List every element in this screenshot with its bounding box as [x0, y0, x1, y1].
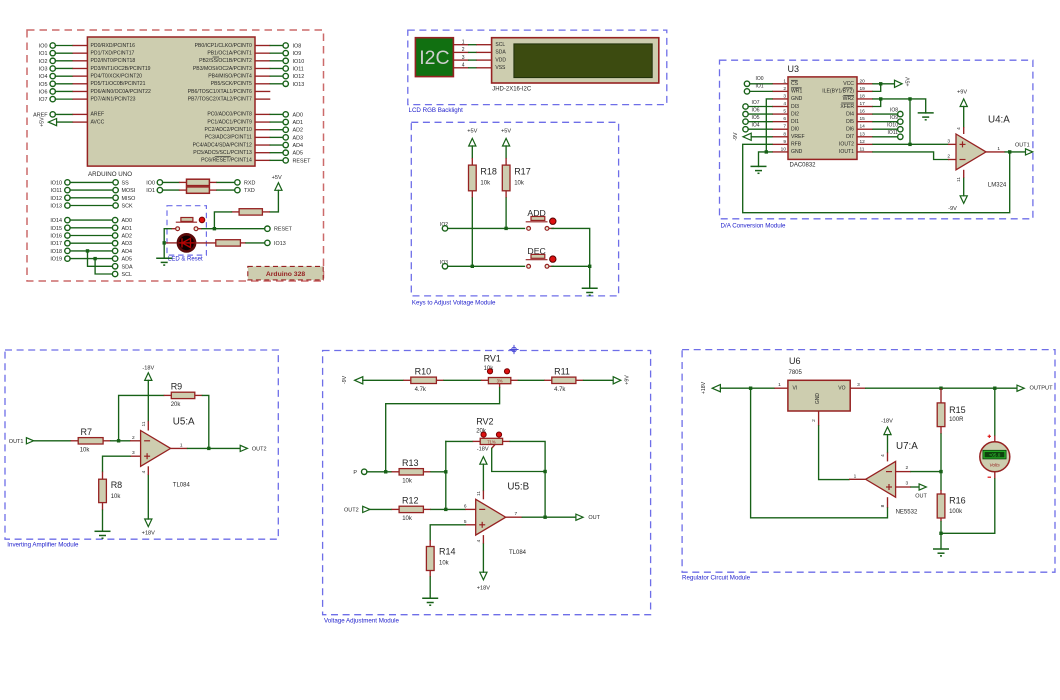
svg-text:5: 5 — [464, 519, 467, 525]
svg-text:U3: U3 — [788, 64, 800, 74]
RV1 wiper wire down-left to P net — [499, 384, 501, 388]
svg-text:14: 14 — [860, 124, 866, 130]
svg-text:PB3/MOSI/OC2A/PCINT3: PB3/MOSI/OC2A/PCINT3 — [193, 66, 252, 72]
svg-text:1: 1 — [783, 78, 786, 84]
resistor R14 10k — [429, 540, 431, 547]
svg-text:OUT2: OUT2 — [344, 507, 359, 513]
ground U3 — [751, 166, 767, 173]
wire R13 to node — [431, 471, 446, 473]
Arduino 328 label box — [248, 266, 323, 280]
svg-text:PC0/ADC0/PCINT8: PC0/ADC0/PCINT8 — [207, 112, 252, 118]
svg-text:CS: CS — [791, 81, 799, 87]
svg-text:10k: 10k — [402, 516, 413, 522]
svg-text:AD0: AD0 — [293, 112, 304, 118]
svg-text:IO19: IO19 — [50, 257, 62, 263]
U3 pin 1 CS — [772, 83, 788, 85]
wire R11 to +9V — [584, 379, 614, 381]
svg-text:U5:B: U5:B — [507, 482, 529, 493]
svg-text:DAC0832: DAC0832 — [790, 163, 817, 169]
svg-text:AD4: AD4 — [293, 143, 304, 149]
terminal OUTPUT — [1017, 385, 1024, 391]
power +9V right — [613, 377, 621, 384]
U3 pin 5 DI2 — [772, 113, 788, 115]
power +5V VCC — [873, 83, 895, 85]
ground — [95, 531, 111, 538]
svg-text:ARDUINO UNO: ARDUINO UNO — [88, 171, 132, 178]
resistor R9 20k — [164, 394, 172, 396]
svg-text:VREF: VREF — [791, 134, 805, 140]
U3 pin 9 RFB — [772, 143, 788, 145]
svg-text:OUT: OUT — [588, 515, 600, 521]
svg-text:+5V: +5V — [272, 175, 282, 181]
svg-text:10: 10 — [781, 146, 787, 152]
svg-text:PC4/ADC4/SDA/PCINT12: PC4/ADC4/SDA/PCINT12 — [193, 142, 252, 148]
wire OUT2 to R12 — [370, 508, 392, 510]
MCU U1 ATmega328 body — [87, 37, 255, 166]
svg-text:IO18: IO18 — [50, 249, 62, 255]
svg-text:4: 4 — [141, 470, 147, 473]
svg-text:GND: GND — [791, 96, 803, 102]
svg-text:NE5532: NE5532 — [896, 510, 918, 516]
wire XFER net down to IOUT2 row — [909, 99, 911, 144]
svg-text:4: 4 — [783, 101, 786, 107]
svg-text:IO5: IO5 — [39, 82, 48, 88]
svg-text:IO0: IO0 — [756, 76, 764, 82]
U3 pin 10 GND — [772, 151, 788, 153]
svg-text:IO7: IO7 — [752, 100, 760, 106]
U3 pin 2 WR1 — [772, 90, 788, 92]
svg-text:I2C: I2C — [419, 47, 449, 69]
svg-text:IO10: IO10 — [887, 123, 898, 129]
Inverting Amplifier module dashed border — [5, 350, 278, 539]
LCD module dashed border — [408, 30, 667, 105]
svg-text:IO17: IO17 — [50, 241, 62, 247]
svg-text:10k: 10k — [439, 561, 450, 567]
svg-text:PB4/MISO/PCINT4: PB4/MISO/PCINT4 — [208, 73, 252, 79]
svg-text:15: 15 — [860, 116, 866, 122]
svg-text:D/A Conversion Module: D/A Conversion Module — [721, 223, 787, 230]
svg-text:PC2/ADC2/PCINT10: PC2/ADC2/PCINT10 — [205, 127, 252, 133]
svg-text:PC6/RESET/PCINT14: PC6/RESET/PCINT14 — [201, 158, 252, 164]
svg-text:P: P — [353, 470, 357, 476]
push button RESET — [181, 218, 193, 222]
svg-text:7805: 7805 — [789, 370, 803, 376]
svg-text:100R: 100R — [949, 417, 964, 423]
LED & Reset sub-module dashed box — [167, 206, 206, 255]
svg-text:Inverting Amplifier Module: Inverting Amplifier Module — [7, 542, 79, 549]
U5:B output pin 7 to OUT — [506, 516, 523, 518]
svg-text:10k: 10k — [111, 494, 122, 500]
svg-text:MISO: MISO — [122, 196, 136, 202]
wire button left leg down — [171, 228, 176, 230]
U7 inverting input pin2 — [896, 471, 911, 473]
wire GND pin10 to ground — [759, 152, 773, 166]
svg-text:IO6: IO6 — [752, 107, 760, 113]
U3 pin 16 DI4 — [857, 113, 873, 115]
U3 pin 14 DI6 — [857, 128, 873, 130]
svg-text:SCK: SCK — [122, 204, 133, 210]
U6 GND pin 2 down — [818, 411, 820, 426]
U3 pin 7 DI0 — [772, 128, 788, 130]
svg-text:IO15: IO15 — [50, 226, 62, 232]
svg-text:SDA: SDA — [122, 264, 133, 270]
wire R8 to ground — [102, 510, 104, 531]
svg-text:DI6: DI6 — [846, 127, 854, 133]
ground — [582, 288, 598, 295]
svg-text:TL084: TL084 — [173, 483, 191, 489]
wire R14 to ground — [429, 577, 431, 598]
U3 pin 6 DI1 — [772, 121, 788, 123]
svg-text:+5V: +5V — [40, 117, 46, 127]
svg-text:10k: 10k — [80, 448, 91, 454]
svg-text:PD5/T1/OC0B/PCINT21: PD5/T1/OC0B/PCINT21 — [91, 81, 146, 87]
svg-text:AD1: AD1 — [293, 120, 304, 126]
svg-text:12: 12 — [860, 139, 866, 145]
svg-text:DI7: DI7 — [846, 134, 854, 140]
svg-text:PB1/OC1A/PCINT1: PB1/OC1A/PCINT1 — [207, 50, 252, 56]
svg-text:VDD: VDD — [495, 57, 506, 63]
Arduino module dashed border — [27, 30, 324, 281]
svg-text:AD3: AD3 — [293, 135, 304, 141]
svg-text:ILE(BY1/BY2): ILE(BY1/BY2) — [822, 89, 854, 95]
svg-text:19: 19 — [860, 86, 866, 92]
I2C adapter block — [415, 38, 453, 77]
resistor R8 10k — [102, 472, 104, 480]
wire IO2 row — [448, 227, 525, 229]
svg-text:AD2: AD2 — [122, 234, 133, 240]
svg-text:+05.0: +05.0 — [989, 453, 1001, 458]
svg-text:RFB: RFB — [791, 142, 802, 148]
wire RV1 to R11 — [518, 379, 544, 381]
svg-text:OUT1: OUT1 — [1015, 143, 1030, 149]
terminal OUT — [576, 514, 583, 520]
svg-text:-18V: -18V — [142, 365, 154, 371]
RV2 wiper to output node — [492, 445, 495, 449]
wire button to RESET terminal — [198, 228, 202, 230]
wire non-inverting input from R14 — [465, 524, 476, 526]
svg-text:-9V: -9V — [342, 375, 348, 384]
wire RV2 right end — [503, 440, 511, 442]
svg-text:IO13: IO13 — [50, 204, 62, 210]
resistor R13 10k — [392, 471, 400, 473]
node SDA branch — [86, 249, 89, 252]
svg-text:Regulator Circuit Module: Regulator Circuit Module — [682, 575, 751, 582]
svg-text:VO: VO — [838, 386, 845, 392]
svg-text:IO16: IO16 — [50, 234, 62, 240]
svg-text:11: 11 — [956, 177, 962, 182]
U7 pin 8 supply to +18V net — [887, 497, 889, 508]
wire R9 to output node — [202, 395, 208, 448]
terminal OUT — [919, 484, 926, 490]
svg-text:11: 11 — [476, 491, 482, 496]
wire WR2/XFER net to ground — [873, 99, 926, 113]
U4 output pin 1 to OUT1 — [986, 151, 1005, 153]
svg-text:IO12: IO12 — [293, 74, 305, 80]
svg-text:7: 7 — [515, 511, 518, 517]
svg-text:U7:A: U7:A — [896, 441, 918, 452]
svg-text:PC1/ADC1/PCINT9: PC1/ADC1/PCINT9 — [207, 119, 252, 125]
U7 non-inverting input pin3 to OUT — [896, 486, 911, 488]
svg-text:+18V: +18V — [477, 586, 490, 592]
wire R10 to RV1 — [444, 379, 481, 381]
svg-text:PD6/AIN0/OC0A/PCINT22: PD6/AIN0/OC0A/PCINT22 — [91, 89, 151, 95]
svg-text:R10: R10 — [415, 366, 432, 376]
svg-text:PB2/SS/OC1B/PCINT2: PB2/SS/OC1B/PCINT2 — [199, 58, 252, 64]
svg-text:IO0: IO0 — [39, 44, 48, 50]
svg-text:IO13: IO13 — [274, 241, 286, 247]
node SCL branch — [93, 257, 96, 260]
svg-text:10k: 10k — [480, 181, 491, 187]
svg-text:LED & Reset: LED & Reset — [168, 257, 203, 263]
svg-text:10k: 10k — [514, 181, 525, 187]
svg-text:20k: 20k — [171, 402, 182, 408]
svg-text:AVCC: AVCC — [91, 119, 105, 125]
svg-text:-9V: -9V — [948, 206, 957, 212]
svg-text:10k: 10k — [402, 478, 413, 484]
svg-text:IO7: IO7 — [39, 97, 48, 103]
wire IOUT1 to op-amp inverting input — [873, 152, 948, 160]
svg-text:IO9: IO9 — [890, 115, 898, 121]
voltmeter Volts — [980, 442, 1010, 472]
svg-text:R7: R7 — [81, 427, 93, 437]
svg-text:IOUT2: IOUT2 — [839, 142, 854, 148]
svg-text:11: 11 — [141, 421, 147, 426]
U5:A output to OUT2 — [171, 447, 188, 449]
svg-text:5: 5 — [783, 109, 786, 115]
svg-text:JHD-2X16-I2C: JHD-2X16-I2C — [492, 87, 532, 93]
wire ADD to right bus — [549, 227, 554, 229]
wire R12 to inverting input — [431, 508, 465, 510]
svg-text:4.7k: 4.7k — [415, 387, 427, 393]
svg-text:8: 8 — [783, 131, 786, 137]
svg-text:3: 3 — [857, 382, 860, 388]
svg-text:2: 2 — [811, 419, 817, 422]
svg-text:MOSI: MOSI — [122, 188, 136, 194]
U3 pin 8 VREF — [772, 136, 788, 138]
U3 pin 3 GND — [772, 98, 788, 100]
U3 pin 12 IOUT2 — [857, 143, 873, 145]
svg-text:AD4: AD4 — [122, 249, 133, 255]
wire GND pin3 down to pin10 — [766, 99, 772, 152]
svg-text:PD3/INT1/OC2B/PCINT19: PD3/INT1/OC2B/PCINT19 — [91, 66, 151, 72]
svg-text:TXD: TXD — [244, 188, 255, 194]
Voltage Adjustment module dashed border — [323, 351, 651, 615]
svg-text:RV2: RV2 — [476, 417, 493, 427]
svg-text:R13: R13 — [402, 458, 419, 468]
svg-text:Keys to Adjust Voltage Module: Keys to Adjust Voltage Module — [412, 300, 496, 307]
bottom node to ground — [939, 532, 942, 535]
svg-text:DI2: DI2 — [791, 111, 799, 117]
svg-text:2: 2 — [947, 154, 950, 160]
svg-text:AD3: AD3 — [122, 241, 133, 247]
svg-text:2: 2 — [132, 435, 135, 441]
svg-text:3: 3 — [783, 93, 786, 99]
wire RV2 left end — [446, 440, 473, 442]
DAC U3 DAC0832 body — [788, 77, 857, 159]
svg-text:IO0: IO0 — [146, 180, 155, 186]
terminal OUT2 — [240, 445, 247, 451]
svg-text:6: 6 — [464, 503, 467, 509]
svg-text:IO5: IO5 — [752, 115, 760, 121]
svg-text:OUTPUT: OUTPUT — [1030, 385, 1054, 391]
terminal RESET — [265, 226, 270, 231]
svg-text:AD5: AD5 — [293, 151, 304, 157]
svg-text:3: 3 — [947, 138, 950, 144]
svg-text:IO12: IO12 — [50, 196, 62, 202]
svg-text:VSS: VSS — [495, 65, 506, 71]
U3 pin 18 WR2 — [857, 98, 873, 100]
svg-text:PC5/ADC5/SCL/PCINT13: PC5/ADC5/SCL/PCINT13 — [193, 150, 252, 156]
svg-text:16: 16 — [860, 109, 866, 115]
ground WR2/XFER — [918, 113, 934, 120]
svg-text:13: 13 — [860, 131, 866, 137]
U7 output pin1 — [849, 478, 866, 480]
wire -9V to R10 — [363, 379, 403, 381]
svg-text:AD0: AD0 — [122, 218, 133, 224]
svg-text:OUT1: OUT1 — [9, 439, 24, 445]
svg-text:U4:A: U4:A — [988, 115, 1010, 126]
feedback wire to R9 — [119, 395, 164, 440]
U3 pin 13 DI7 — [857, 136, 873, 138]
svg-text:+5V: +5V — [906, 77, 912, 87]
svg-text:R16: R16 — [949, 496, 966, 506]
svg-text:4: 4 — [476, 539, 482, 542]
svg-text:R14: R14 — [439, 547, 456, 557]
svg-text:R15: R15 — [949, 405, 966, 415]
svg-text:IO10: IO10 — [293, 59, 305, 65]
svg-text:+9V: +9V — [957, 90, 967, 96]
wire +18V to U6 VI — [720, 387, 774, 389]
resistor R12 10k — [392, 508, 400, 510]
wire DEC to ground — [549, 265, 554, 267]
wire P to R13 — [367, 471, 392, 473]
svg-text:AREF: AREF — [91, 112, 105, 118]
terminal IO13 — [265, 240, 270, 245]
svg-text:IO1: IO1 — [39, 51, 48, 57]
svg-text:-18V: -18V — [477, 447, 489, 453]
svg-text:-18V: -18V — [881, 419, 893, 425]
svg-text:DI3: DI3 — [791, 104, 799, 110]
origin marker — [509, 345, 518, 354]
wire IO3 row — [448, 265, 525, 267]
svg-text:Volts: Volts — [989, 462, 1000, 468]
ground — [933, 549, 949, 556]
svg-text:AD2: AD2 — [293, 128, 304, 134]
svg-text:RESET: RESET — [293, 158, 312, 164]
svg-text:PB6/TOSC1/XTAL1/PCINT6: PB6/TOSC1/XTAL1/PCINT6 — [188, 89, 252, 95]
resistor R16 100k — [940, 472, 942, 490]
svg-text:U5:A: U5:A — [173, 417, 195, 428]
svg-text:IO1: IO1 — [146, 188, 155, 194]
svg-text:IO11: IO11 — [293, 66, 304, 72]
svg-text:+5V: +5V — [467, 129, 477, 135]
svg-text:IO1: IO1 — [756, 84, 764, 90]
wire IOUT2 to op-amp non-inverting input — [873, 143, 948, 145]
wire VO to OUTPUT — [866, 387, 1017, 389]
svg-text:+5V: +5V — [501, 129, 511, 135]
svg-text:PD1/TXD/PCINT17: PD1/TXD/PCINT17 — [91, 50, 135, 56]
svg-text:IO14: IO14 — [50, 218, 62, 224]
svg-text:PB7/TOSC2/XTAL2/PCINT7: PB7/TOSC2/XTAL2/PCINT7 — [188, 96, 252, 102]
voltmeter wire bottom — [988, 476, 991, 478]
svg-text:R8: R8 — [111, 480, 123, 490]
LCD display JHD-2X16-I2C — [492, 38, 659, 83]
svg-text:100k: 100k — [949, 509, 963, 515]
svg-text:3: 3 — [906, 481, 909, 487]
ground — [156, 258, 172, 265]
svg-text:PD4/T0/XCK/PCINT20: PD4/T0/XCK/PCINT20 — [91, 73, 143, 79]
svg-text:WR2: WR2 — [843, 96, 854, 102]
svg-text:71%: 71% — [487, 439, 496, 444]
Regulator module dashed border — [682, 350, 1055, 573]
svg-text:R9: R9 — [171, 381, 183, 391]
feedback wire output to RFB — [743, 144, 1010, 212]
svg-text:R18: R18 — [480, 167, 497, 177]
svg-text:DI0: DI0 — [791, 127, 799, 133]
svg-text:GND: GND — [815, 393, 821, 405]
U3 pin 4 DI3 — [772, 106, 788, 108]
svg-text:3: 3 — [132, 450, 135, 456]
svg-text:DI5: DI5 — [846, 119, 854, 125]
svg-text:R12: R12 — [402, 495, 419, 505]
voltmeter wire top — [994, 388, 996, 435]
svg-text:DI4: DI4 — [846, 111, 854, 117]
svg-text:Arduino 328: Arduino 328 — [266, 271, 305, 278]
resistor R11 4.7k — [544, 379, 552, 381]
svg-text:AD1: AD1 — [122, 226, 133, 232]
U3 pin 19 ILE(BY1/BY2) — [857, 90, 873, 92]
svg-text:SDA: SDA — [495, 50, 506, 56]
resistor reset pull-up — [262, 211, 270, 213]
svg-text:4: 4 — [956, 127, 962, 130]
U3 pin 20 VCC — [857, 83, 873, 85]
terminal OUT1 — [1026, 149, 1033, 155]
svg-text:IO4: IO4 — [752, 123, 760, 129]
svg-text:17: 17 — [860, 101, 866, 107]
svg-text:RV1: RV1 — [484, 354, 501, 364]
svg-text:4.7k: 4.7k — [554, 387, 566, 393]
svg-text:SCL: SCL — [495, 42, 505, 48]
resistor R15 100R — [940, 388, 942, 403]
svg-text:1: 1 — [997, 146, 1000, 152]
svg-text:+18V: +18V — [142, 530, 155, 536]
red indicator on button — [199, 217, 205, 223]
svg-text:+9V: +9V — [624, 375, 630, 385]
svg-text:-9V: -9V — [733, 132, 739, 141]
svg-text:RXD: RXD — [244, 180, 255, 186]
svg-text:+18V: +18V — [701, 381, 707, 394]
svg-text:IO11: IO11 — [888, 130, 899, 136]
U3 pin 15 DI5 — [857, 121, 873, 123]
svg-text:GND: GND — [791, 149, 803, 155]
svg-text:6: 6 — [783, 116, 786, 122]
svg-text:11: 11 — [860, 146, 865, 152]
svg-text:18: 18 — [860, 93, 866, 99]
LED D1 — [166, 242, 177, 244]
svg-text:4: 4 — [880, 454, 886, 457]
svg-text:PD2/INT0/PCINT18: PD2/INT0/PCINT18 — [91, 58, 136, 64]
svg-text:1: 1 — [180, 442, 183, 448]
svg-text:OUT2: OUT2 — [252, 446, 267, 452]
svg-text:RESET: RESET — [274, 227, 293, 233]
svg-text:SCL: SCL — [122, 272, 133, 278]
svg-text:PB5/SCK/PCINT5: PB5/SCK/PCINT5 — [211, 81, 252, 87]
node vertical RV2-left / R12 — [445, 441, 447, 509]
svg-text:IO3: IO3 — [39, 66, 48, 72]
svg-text:VI: VI — [793, 386, 798, 392]
svg-text:2: 2 — [783, 86, 786, 92]
svg-text:IO13: IO13 — [293, 82, 305, 88]
